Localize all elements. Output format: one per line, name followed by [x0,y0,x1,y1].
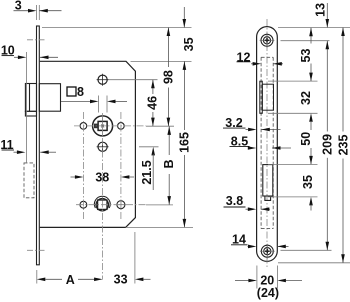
svg-text:165: 165 [177,132,191,153]
extension line bottom screw axis [139,146,159,148]
handle follower [93,116,113,136]
deadbolt cutout [263,165,273,201]
faceplate top screw centre tick [27,39,45,41]
extension line faceplate top [42,27,192,29]
cylinder row right hole [116,200,126,210]
svg-text:209: 209 [320,134,334,155]
svg-text:235: 235 [336,135,350,156]
centreline left holes column [82,112,84,219]
dim B follower axis to cylinder axis [162,126,176,204]
dim 35 deadbolt height (right) [301,175,315,210]
extension line deadbolt top [268,163,318,165]
faceplate bottom screw centre tick [27,249,45,251]
horizontal centreline cylinder axis [76,204,173,206]
svg-text:8: 8 [77,85,84,99]
plate top screw [260,33,275,48]
dim 35 faceplate top to case top [182,7,196,51]
extension line plate top (right) [278,27,350,29]
WC cylinder follower [94,196,110,211]
dim 3 faceplate thickness [14,0,62,20]
extension line latch top [268,80,318,82]
striking plate front view [257,27,278,262]
dim 38 hole spacing [71,170,135,184]
svg-text:21.5: 21.5 [140,160,154,184]
extension line case bottom [126,226,193,228]
extension line deadbolt bottom [268,196,318,198]
svg-text:98: 98 [162,70,176,84]
dim 165 case height [177,61,191,227]
svg-text:13: 13 [314,3,328,17]
extension line bottom screw axis (right) [281,249,332,251]
dim 3.2 plate to case [223,116,281,131]
svg-text:46: 46 [146,96,160,110]
dim 33 follower axis to case back [114,232,151,286]
WC bolt thrown (dashed) [24,163,34,198]
dim 46 screw to follower axis [146,80,160,126]
dim 21.5 follower axis to bottom screw [140,147,155,190]
dim 209 screw spacing [320,41,334,251]
centreline right holes column [120,112,122,219]
lock case outline (side view) [40,61,136,227]
dim A backset (bottom row) [37,270,103,287]
dim 53 plate top to latch [299,28,313,81]
bottom fixing screw hole [97,141,109,153]
svg-text:53: 53 [299,49,313,63]
latch bolt body inside case [39,84,60,112]
top fixing screw hole [97,74,109,86]
dim 13 plate top to screw [314,3,330,28]
plate centreline [266,19,268,269]
plate bottom screw [260,244,275,259]
svg-text:32: 32 [299,91,313,105]
svg-text:B: B [162,159,176,168]
dim 14 [231,232,289,248]
extension line plate bottom (right) [278,262,350,264]
dim 8 follower square [61,85,127,113]
vertical centreline through follower and cylinder [102,113,104,280]
svg-text:33: 33 [114,272,128,286]
faceplate (side view) [37,26,40,265]
dim 235 plate height [336,28,350,263]
extension line case top [131,60,192,62]
dim 12 case width [237,50,284,65]
dim 50 latch to deadbolt [299,129,313,165]
lock case hidden outline (dashed) [261,57,273,228]
extension line latch bottom [268,112,318,114]
svg-text:3.8: 3.8 [226,194,243,208]
svg-text:14: 14 [232,232,246,246]
dim 10 latch protrusion [1,44,58,163]
cylinder row left hole [80,201,87,208]
svg-text:A: A [66,273,75,287]
latch bolt face in plate cutout [260,81,274,113]
latch bolt protrusion [25,84,36,117]
dim 8.5 plate edge to latch face [230,134,292,150]
dim 20 (24) plate width [235,266,302,301]
follower row left hole [80,123,87,130]
svg-text:(24): (24) [257,286,279,300]
svg-text:38: 38 [95,170,109,184]
extension line top screw axis [109,79,158,81]
svg-text:35: 35 [182,37,196,51]
svg-text:12: 12 [237,50,251,64]
dim 32 latch height [299,91,313,128]
svg-text:50: 50 [299,132,313,146]
extension line top screw axis (right) [281,40,330,42]
dim 3.8 plate to case lower [224,194,271,211]
dim 98 faceplate top to follower axis [162,28,176,127]
follower row right hole [118,123,125,130]
horizontal centreline follower axis [74,125,174,127]
dim 11 deadbolt protrusion [0,138,56,154]
svg-text:35: 35 [301,175,315,189]
